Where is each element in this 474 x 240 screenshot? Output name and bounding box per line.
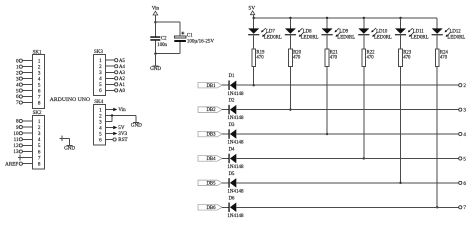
svg-text:DB1: DB1 (206, 84, 216, 89)
output node 3 (459, 108, 467, 114)
svg-text:470: 470 (293, 55, 301, 60)
SK4 pin 4 (5V) (99, 125, 125, 131)
capacitor C1 (174, 32, 214, 45)
junction (399, 182, 401, 184)
connector SK3 body (94, 50, 106, 95)
svg-text:DB4: DB4 (206, 157, 216, 162)
svg-text:A3: A3 (119, 71, 125, 76)
wire (236, 84, 458, 86)
SK1 pin 3 (digital 2) (16, 70, 41, 76)
resistor R20 (289, 49, 302, 66)
connector SK4 body (94, 100, 106, 145)
wire (253, 18, 255, 28)
net flag DB6 (198, 205, 222, 211)
svg-text:LD9: LD9 (339, 30, 348, 35)
svg-text:8: 8 (38, 100, 41, 106)
svg-text:5: 5 (463, 156, 466, 162)
svg-text:1N4148: 1N4148 (227, 189, 244, 194)
wire (289, 66, 291, 109)
wire (400, 35, 402, 49)
LED LD9 (322, 28, 356, 40)
LED LD11 (395, 28, 429, 40)
net flag DB4 (198, 156, 222, 162)
svg-text:GND: GND (131, 123, 142, 129)
svg-text:7: 7 (463, 205, 466, 211)
output node 2 (459, 83, 467, 89)
SK3 pin 6 (A0) (99, 88, 125, 94)
SK4 pin 5 (3V3) (99, 131, 127, 137)
svg-text:LED0RL: LED0RL (411, 35, 429, 40)
SK2 pin 6 (digital 13) (13, 149, 41, 155)
SK2 pin 8 (AREF) (5, 161, 41, 167)
svg-text:DB5: DB5 (206, 181, 216, 186)
junction (253, 17, 255, 19)
svg-text:470: 470 (367, 55, 375, 60)
svg-text:1N4148: 1N4148 (227, 214, 244, 219)
resistor R21 (325, 49, 338, 66)
wire (326, 66, 328, 134)
junction (326, 17, 328, 19)
label ARDUINO UNO (50, 97, 90, 103)
power 5V (249, 6, 256, 15)
junction (363, 157, 365, 159)
wire (222, 182, 228, 184)
wire (154, 41, 156, 54)
net flag DB5 (198, 180, 222, 186)
svg-text:3: 3 (463, 108, 466, 114)
svg-text:C1: C1 (187, 34, 193, 39)
svg-text:470: 470 (330, 55, 338, 60)
wire (154, 22, 156, 36)
SK2 pin 3 (digital 10) (13, 131, 41, 137)
svg-text:100n: 100n (157, 43, 167, 48)
svg-text:6: 6 (463, 181, 466, 187)
svg-text:D5: D5 (229, 172, 235, 177)
SK4 pin 2/3 (GND wires) (99, 113, 136, 125)
SK1 pin 4 (digital 3) (16, 76, 41, 82)
svg-text:470: 470 (256, 55, 264, 60)
junction (363, 17, 365, 19)
SK4 pin 6 (RST) (99, 137, 128, 143)
net flag DB2 (198, 107, 222, 113)
wire (436, 18, 438, 28)
svg-text:LED0RL: LED0RL (374, 35, 392, 40)
svg-text:5: 5 (38, 143, 41, 149)
SK2 pin 5 (digital 12) (13, 143, 41, 149)
wire (236, 157, 458, 159)
svg-text:A2: A2 (119, 77, 125, 82)
wire (363, 66, 365, 158)
SK2 pin 4 (digital 11) (14, 137, 41, 143)
svg-text:LD11: LD11 (413, 30, 425, 35)
svg-text:6: 6 (38, 149, 41, 155)
svg-text:1N4148: 1N4148 (227, 92, 244, 97)
svg-text:D2: D2 (229, 99, 235, 104)
wire (253, 15, 255, 18)
net flag DB3 (198, 131, 222, 137)
diode D3 (227, 123, 244, 146)
svg-text:12: 12 (13, 143, 19, 149)
wire (436, 17, 438, 19)
ground (150, 66, 161, 72)
wire (400, 66, 402, 183)
wire 5V rail (254, 17, 438, 19)
svg-text:1N4148: 1N4148 (227, 141, 244, 146)
svg-text:D6: D6 (229, 196, 235, 201)
svg-text:470: 470 (440, 55, 448, 60)
wire (326, 35, 328, 49)
wire (222, 84, 228, 86)
svg-text:C2: C2 (161, 37, 167, 42)
svg-text:GND: GND (150, 66, 161, 72)
diode D6 (227, 196, 244, 219)
svg-text:A1: A1 (119, 83, 125, 88)
wire (236, 109, 458, 111)
jumper pin J1 (60, 136, 70, 141)
diode D5 (227, 172, 244, 195)
SK1 pin 1 (digital 0) (16, 58, 41, 64)
connector SK2 body (32, 111, 44, 169)
svg-text:DB3: DB3 (206, 133, 216, 138)
svg-text:100µ/16-25V: 100µ/16-25V (187, 39, 214, 44)
wire (363, 18, 365, 28)
svg-text:D4: D4 (229, 147, 235, 152)
svg-text:LD7: LD7 (266, 30, 275, 35)
SK2 pin 1 (digital 8) (16, 119, 41, 125)
svg-text:LD8: LD8 (303, 30, 312, 35)
SK1 pin 2 (digital 1) (16, 64, 41, 70)
wire (363, 35, 365, 49)
svg-text:1N4148: 1N4148 (227, 165, 244, 170)
svg-text:7: 7 (38, 155, 41, 161)
svg-text:4: 4 (38, 137, 41, 143)
resistor R22 (362, 49, 375, 66)
svg-text:11: 11 (14, 137, 19, 143)
svg-text:6: 6 (99, 137, 102, 143)
junction (436, 206, 438, 208)
svg-text:DB6: DB6 (206, 206, 216, 211)
power Vin (152, 5, 160, 15)
SK1 pin 7 (digital 6) (16, 94, 41, 100)
LED LD8 (285, 28, 319, 40)
wire (253, 35, 255, 49)
SK3 pin 2 (A4) (99, 64, 125, 70)
resistor R19 (252, 49, 265, 66)
wire (154, 15, 156, 22)
svg-text:RST: RST (118, 137, 128, 143)
wire (236, 206, 458, 208)
wire (326, 18, 328, 28)
resistor R23 (399, 49, 412, 66)
junction (154, 53, 156, 55)
wire (179, 42, 181, 54)
wire (179, 22, 181, 36)
wire (222, 109, 228, 111)
SK3 pin 3 (A3) (99, 70, 125, 76)
ground (64, 145, 75, 151)
output node 5 (459, 156, 467, 162)
diode D4 (227, 147, 244, 170)
SK1 pin 5 (digital 4) (16, 82, 41, 88)
wire (236, 133, 458, 135)
svg-text:Vin: Vin (152, 5, 160, 11)
svg-text:10: 10 (13, 131, 19, 137)
svg-text:LED0RL: LED0RL (264, 35, 282, 40)
wire (222, 133, 228, 135)
wire (400, 18, 402, 28)
output node 7 (459, 205, 467, 211)
net flag DB1 (198, 82, 222, 88)
wire (68, 138, 70, 145)
wire (154, 54, 156, 66)
svg-text:A0: A0 (119, 89, 125, 94)
svg-text:ARDUINO UNO: ARDUINO UNO (50, 97, 90, 103)
LED LD7 (248, 28, 282, 40)
wire (436, 66, 438, 207)
svg-text:13: 13 (13, 149, 19, 155)
svg-text:1N4148: 1N4148 (227, 116, 244, 121)
wire (222, 157, 228, 159)
svg-text:Vin: Vin (118, 107, 126, 113)
svg-text:DB2: DB2 (206, 108, 216, 113)
SK1 pin 8 (digital 7) (16, 100, 41, 106)
ground (131, 123, 142, 129)
svg-text:LD12: LD12 (450, 30, 462, 35)
LED LD10 (358, 28, 392, 40)
svg-text:AREF: AREF (5, 161, 18, 167)
junction (399, 17, 401, 19)
SK4 pin 1 (Vin) (99, 107, 126, 113)
SK2 pin 7 (GND stub) (18, 155, 41, 162)
wire (155, 21, 180, 23)
junction (253, 84, 255, 86)
svg-text:8: 8 (38, 162, 41, 168)
svg-text:LED0RL: LED0RL (447, 35, 465, 40)
resistor R24 (435, 49, 448, 66)
SK3 pin 1 (A5) (99, 58, 125, 64)
svg-text:6: 6 (99, 88, 102, 94)
svg-text:LED0RL: LED0RL (337, 35, 355, 40)
svg-text:LED0RL: LED0RL (301, 35, 319, 40)
svg-text:A4: A4 (119, 65, 125, 70)
capacitor C2 (150, 36, 167, 48)
junction (154, 21, 156, 23)
wire (222, 206, 228, 208)
svg-text:5V: 5V (249, 6, 256, 12)
wire (436, 35, 438, 49)
wire (155, 53, 180, 55)
junction (326, 133, 328, 135)
wire (135, 116, 137, 123)
svg-text:3: 3 (38, 131, 41, 137)
svg-text:2: 2 (38, 125, 41, 131)
svg-text:1: 1 (38, 119, 41, 125)
svg-text:4: 4 (463, 132, 466, 138)
svg-text:A5: A5 (119, 59, 125, 64)
output node 4 (459, 132, 467, 138)
output node 6 (459, 181, 467, 187)
diode D2 (227, 99, 244, 122)
svg-text:GND: GND (64, 146, 75, 152)
wire (236, 182, 458, 184)
diode D1 (227, 74, 244, 97)
SK3 pin 4 (A2) (99, 76, 125, 82)
wire (289, 18, 291, 28)
svg-text:D1: D1 (229, 74, 235, 79)
wire (253, 66, 255, 85)
connector SK1 body (32, 50, 44, 108)
junction (289, 17, 291, 19)
junction (289, 108, 291, 110)
LED LD12 (432, 28, 466, 40)
wire (289, 35, 291, 49)
SK1 pin 6 (digital 5) (16, 88, 41, 94)
svg-text:D3: D3 (229, 123, 235, 128)
svg-text:2: 2 (463, 83, 466, 89)
SK3 pin 5 (A1) (99, 82, 125, 88)
svg-text:470: 470 (403, 55, 411, 60)
svg-text:LD10: LD10 (376, 30, 388, 35)
SK2 pin 2 (digital 9) (16, 125, 41, 131)
